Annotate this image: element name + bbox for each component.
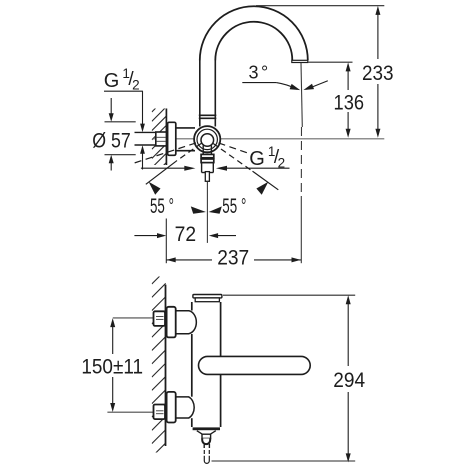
outlet stem: [202, 163, 214, 173]
centerline axis (side view): [152, 138, 384, 140]
valve ring: [197, 129, 217, 149]
svg-text:237: 237: [217, 245, 249, 269]
G 1/2 right leader line: [224, 167, 290, 169]
3 deg leader line: [242, 82, 276, 84]
svg-text:72: 72: [175, 222, 197, 246]
escutcheon bottom (front view): [167, 392, 176, 423]
G 1/2 arrow down to pipe: [142, 91, 144, 126]
svg-text:294: 294: [333, 368, 365, 392]
lever collar bands: [201, 154, 214, 157]
swing line right 55 solid end: [253, 171, 279, 190]
dim 57 bottom arrow: [110, 162, 112, 171]
s-union cone top: [176, 311, 190, 334]
hidden thread dashes: [203, 450, 205, 454]
supply pipe G1/2 (side view): [135, 132, 157, 145]
svg-text:55°: 55°: [222, 194, 246, 218]
stem centerline: [206, 182, 208, 243]
hidden thread U: [204, 456, 209, 464]
spout outlet (side view): [292, 60, 308, 62]
294 extension bottom: [212, 460, 356, 462]
outlet stubs: [203, 444, 205, 448]
svg-text:55°: 55°: [150, 194, 174, 218]
svg-text:3°: 3°: [249, 62, 269, 82]
top cap groove: [195, 298, 219, 302]
s-union bulge bottom: [189, 397, 194, 418]
lever neck below hub: [203, 146, 211, 155]
G 1/2 left arrow line: [141, 167, 188, 169]
angle arc arrowhead right: [256, 182, 268, 195]
angle arc arrows bottom center: [191, 206, 206, 213]
angle arc arrowhead left: [149, 182, 161, 195]
outlet collar: [202, 434, 211, 438]
G 1/2 arrow up to pipe bottom: [142, 152, 144, 170]
swing line left 55 dashed: [176, 143, 202, 161]
swing line left 55 solid end: [146, 161, 176, 184]
body bottom seam: [193, 427, 220, 430]
handle hub circle: [201, 134, 214, 147]
spout vertical pipe (side view): [199, 60, 217, 127]
svg-text:136: 136: [334, 91, 365, 115]
3 deg arc arrowheads: [290, 84, 301, 90]
dimension 294: [347, 303, 349, 366]
s-union cone bottom: [176, 397, 190, 418]
outlet stream centerline 3 deg: [301, 63, 302, 127]
wall face line (front view): [165, 285, 167, 446]
s-union bulge top: [189, 311, 197, 334]
spout arc (side view): [200, 6, 308, 60]
label G 1/2 leader underline: [104, 90, 143, 92]
dimension 136: [347, 70, 349, 130]
top cap disc: [193, 295, 222, 298]
svg-text:233: 233: [362, 61, 394, 85]
supply axis bottom: [107, 411, 153, 413]
hex nut (side view): [156, 132, 167, 146]
extension line outlet bottom: [309, 61, 353, 63]
handle lever (front view): [199, 356, 311, 374]
3 deg angle arc: [276, 83, 297, 90]
hex nut bottom (front view): [154, 405, 166, 420]
dimension 72: [134, 235, 158, 237]
body tube to valve (side view): [176, 128, 195, 151]
outlet dome: [202, 438, 210, 444]
swing line right 55 dashed: [213, 143, 253, 171]
dimension 237: [166, 259, 212, 261]
dimension 150±11: [112, 326, 114, 354]
294 extension top: [223, 294, 355, 296]
wall face line (side view): [165, 109, 167, 166]
swing line right 70 dashed: [219, 143, 251, 154]
supply axis top: [113, 317, 154, 319]
hex nut top (front view): [154, 311, 166, 326]
dim 57 top arrow: [110, 98, 112, 115]
72 extension line left: [165, 219, 167, 264]
svg-text:Ø 57: Ø 57: [92, 128, 131, 152]
swing line left 70 dashed: [132, 143, 197, 164]
outlet taper: [197, 431, 216, 435]
dim 57 extension bottom: [105, 154, 136, 156]
body tube (front view): [192, 302, 221, 427]
dim 57 extension top: [105, 121, 136, 123]
G1/2 nipple: [205, 172, 209, 182]
valve body outer circle (side view): [194, 126, 220, 152]
extension line spout top: [256, 5, 384, 7]
escutcheon top (front view): [167, 307, 176, 338]
svg-text:150±11: 150±11: [81, 354, 143, 378]
wall escutcheon flange (side view): [168, 122, 176, 155]
dimension 233: [377, 14, 379, 129]
